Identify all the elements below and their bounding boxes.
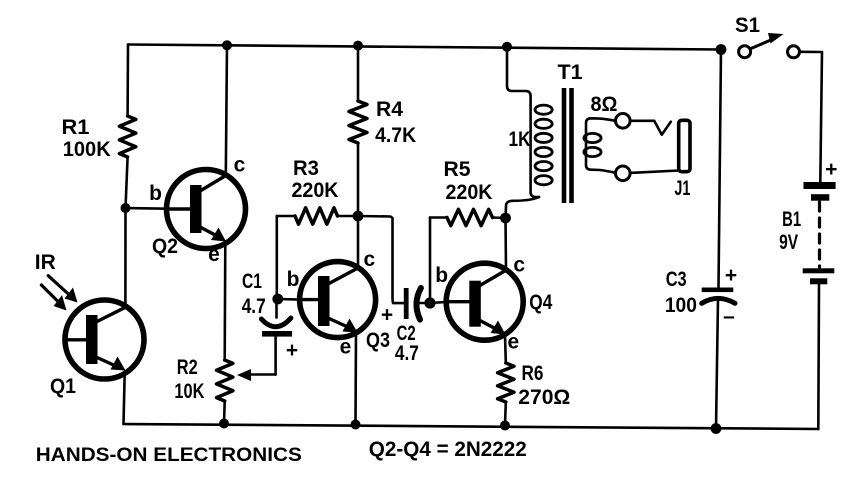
capacitor C3	[702, 288, 735, 304]
terminal circle top	[616, 114, 631, 129]
IR arrows	[41, 276, 77, 311]
wire R5 left leg down	[429, 218, 432, 304]
wire left rail upper (to R1)	[126, 45, 129, 117]
svg-text:1K: 1K	[509, 128, 531, 151]
transformer T1 secondary	[586, 118, 616, 173]
battery dashed middle	[818, 202, 821, 267]
wire node C to C2	[358, 216, 404, 303]
R2 wiper arrow wire	[250, 373, 276, 376]
svg-text:4.7: 4.7	[242, 295, 266, 318]
svg-text:c: c	[363, 248, 375, 271]
transformer T1 primary wire bottom	[506, 197, 540, 218]
svg-text:B1: B1	[782, 208, 801, 231]
svg-text:e: e	[208, 243, 220, 266]
transformer T1 primary wire top	[507, 47, 539, 197]
wire bottom rail	[124, 424, 819, 429]
transistor Q1	[65, 300, 144, 379]
resistor R6	[498, 363, 514, 402]
svg-text:+: +	[381, 304, 393, 327]
wire Q2 base	[126, 207, 167, 210]
wire bottom terminal to J1	[630, 171, 679, 173]
svg-text:c: c	[513, 254, 525, 277]
wire R3 left down	[275, 216, 278, 299]
wire Q2 collector up	[226, 45, 227, 175]
svg-text:+: +	[725, 264, 737, 287]
wire Q2 emitter down to R2	[223, 243, 226, 360]
capacitor C2	[404, 288, 430, 320]
resistor R1	[119, 116, 135, 157]
svg-text:4.7K: 4.7K	[375, 124, 416, 147]
svg-text:R1: R1	[62, 116, 90, 139]
node Q3 emitter bottom rail	[351, 420, 361, 430]
svg-text:–: –	[723, 305, 735, 328]
svg-text:100: 100	[665, 294, 697, 317]
transistor Q2	[167, 170, 246, 249]
wire R2 bottom	[223, 401, 226, 424]
svg-text:e: e	[340, 336, 352, 359]
wire battery bottom	[817, 285, 820, 430]
svg-text:9V: 9V	[779, 231, 798, 254]
svg-text:100K: 100K	[63, 138, 111, 161]
node B C1/R3/Q3 base	[272, 294, 283, 305]
wire R5 left stub	[430, 216, 447, 219]
svg-text:b: b	[287, 268, 300, 291]
svg-text:C3: C3	[666, 268, 687, 291]
transistor Q3	[300, 262, 376, 338]
svg-text:220K: 220K	[446, 181, 493, 204]
node top rail / Q2 collector	[222, 40, 232, 50]
node D C2/R5/Q4 base	[424, 297, 435, 308]
wire node A down to Q1 collector	[124, 208, 127, 306]
wire C3 column lower	[716, 299, 718, 429]
node A junction dot	[121, 203, 131, 213]
wire node D to Q4 base	[430, 302, 446, 303]
resistor R4	[349, 101, 367, 143]
svg-text:R2: R2	[177, 356, 198, 379]
wire R1 bottom to node A	[126, 157, 128, 208]
switch S1	[739, 33, 800, 58]
svg-text:8Ω: 8Ω	[591, 93, 618, 116]
wire Q4 emitter down to R6	[504, 334, 507, 363]
wire node B to Q3 base	[278, 298, 300, 301]
wire R4 top	[357, 46, 360, 101]
svg-text:R5: R5	[444, 158, 471, 181]
wire top rail	[128, 45, 721, 50]
svg-text:4.7: 4.7	[395, 342, 419, 365]
svg-text:R6: R6	[522, 362, 544, 385]
terminal circle bottom	[616, 166, 631, 181]
wire C3 column upper	[719, 50, 722, 288]
V notch	[654, 121, 671, 135]
node C junction dot	[353, 211, 364, 222]
wire R6 bottom	[504, 402, 507, 426]
svg-text:b: b	[435, 264, 448, 287]
svg-text:e: e	[507, 331, 519, 354]
svg-text:Q2: Q2	[152, 235, 178, 258]
wire R3 right to node C	[338, 215, 359, 218]
svg-text:b: b	[149, 182, 162, 205]
wire S1 to battery column	[800, 52, 823, 182]
svg-text:c: c	[234, 154, 246, 177]
svg-text:+: +	[286, 339, 298, 362]
svg-text:270Ω: 270Ω	[518, 386, 570, 409]
resistor R3	[295, 208, 338, 224]
svg-text:+: +	[825, 158, 837, 181]
svg-text:J1: J1	[674, 177, 690, 200]
node R2 bottom rail dot	[219, 419, 229, 429]
svg-text:IR: IR	[35, 251, 56, 274]
wire Q4 collector up	[504, 218, 507, 270]
svg-text:10K: 10K	[174, 380, 204, 403]
capacitor C1	[261, 299, 292, 375]
svg-text:Q2-Q4 = 2N2222: Q2-Q4 = 2N2222	[369, 438, 527, 461]
node R6 bottom rail	[500, 421, 510, 431]
svg-text:Q1: Q1	[50, 375, 76, 398]
node top rail / T1 primary	[502, 42, 512, 52]
svg-text:R3: R3	[293, 157, 319, 180]
wire R4 bottom to node C	[357, 143, 360, 216]
wire terminal to V notch	[630, 120, 654, 123]
svg-text:Q3: Q3	[366, 329, 390, 352]
svg-text:Q4: Q4	[529, 291, 552, 314]
node E junction dot	[500, 213, 511, 224]
battery B1	[803, 182, 836, 284]
svg-text:T1: T1	[558, 61, 583, 84]
node top rail / C3 column	[716, 44, 727, 55]
svg-text:R4: R4	[376, 98, 403, 121]
resistor R5	[447, 209, 493, 225]
svg-text:HANDS-ON ELECTRONICS: HANDS-ON ELECTRONICS	[36, 445, 302, 466]
svg-text:S1: S1	[735, 14, 760, 37]
transistor Q4	[446, 263, 523, 340]
node top rail / R4	[353, 41, 363, 51]
wire R5 right to node E	[493, 216, 506, 219]
wire Q1 emitter down to bottom rail	[124, 373, 125, 424]
wire Q3 emitter down	[354, 333, 357, 425]
node C3 bottom rail	[711, 423, 722, 434]
potentiometer R2	[217, 360, 233, 401]
transformer T1 primary coil	[535, 105, 552, 185]
transformer T1 core	[562, 88, 574, 203]
svg-text:220K: 220K	[292, 179, 339, 202]
wire R3 left stub	[277, 215, 295, 218]
jack J1	[679, 120, 690, 171]
wire Q3 collector up	[357, 216, 360, 268]
svg-text:C1: C1	[242, 270, 262, 293]
